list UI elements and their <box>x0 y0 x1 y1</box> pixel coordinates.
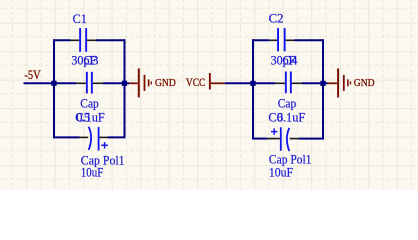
svg-text:Cap: Cap <box>80 97 99 111</box>
power port -5V <box>24 67 41 82</box>
capacitor C6 (polarized, rotated 180) <box>267 127 299 151</box>
wire main navy between cap C4 and junction D <box>302 82 328 84</box>
wire left rail <box>53 39 55 137</box>
svg-text:VCC: VCC <box>186 75 206 89</box>
svg-text:C3: C3 <box>83 54 98 68</box>
svg-text:C6: C6 <box>268 110 283 124</box>
junction B <box>122 81 127 86</box>
junction C <box>250 81 255 86</box>
svg-text:Cap Pol1: Cap Pol1 <box>269 153 312 167</box>
svg-text:10uF: 10uF <box>269 166 293 180</box>
capacitor C5 (polarized) <box>80 127 109 151</box>
wire main navy between cap C3 and junction B <box>103 82 129 84</box>
junction A <box>51 81 56 86</box>
svg-text:C1: C1 <box>73 12 87 26</box>
svg-text:C4: C4 <box>282 54 298 68</box>
capacitor C1 <box>71 28 96 52</box>
svg-text:C2: C2 <box>269 12 284 26</box>
wire bottom left segment <box>53 136 80 138</box>
junction D <box>320 81 325 86</box>
svg-text:10uF: 10uF <box>81 166 104 180</box>
svg-text:-5V: -5V <box>24 67 41 82</box>
wire -5V to junction A (main wire left segment) <box>24 82 77 84</box>
capacitor C4 <box>275 72 302 94</box>
wire bottom right segment right group <box>299 138 324 140</box>
wire bottom right segment <box>108 136 126 138</box>
wire right rail <box>124 39 126 137</box>
capacitor C2 <box>269 28 294 51</box>
ground GND left <box>129 68 176 97</box>
wire top right segment right group <box>295 39 325 41</box>
wire VCC to junction C <box>225 82 275 84</box>
wire left rail right group <box>252 39 254 138</box>
capacitor C3 <box>76 72 103 94</box>
svg-text:GND: GND <box>354 77 375 89</box>
power port VCC <box>186 73 225 90</box>
svg-text:Cap: Cap <box>278 97 297 111</box>
wire top right segment <box>96 39 126 41</box>
wire bottom left segment right group <box>252 138 267 140</box>
wire right rail right group <box>322 39 324 138</box>
svg-text:C5: C5 <box>75 110 90 124</box>
svg-text:GND: GND <box>155 77 176 89</box>
wire top left segment <box>53 39 71 41</box>
ground GND right <box>328 68 375 97</box>
wire top left segment right group <box>252 39 269 41</box>
